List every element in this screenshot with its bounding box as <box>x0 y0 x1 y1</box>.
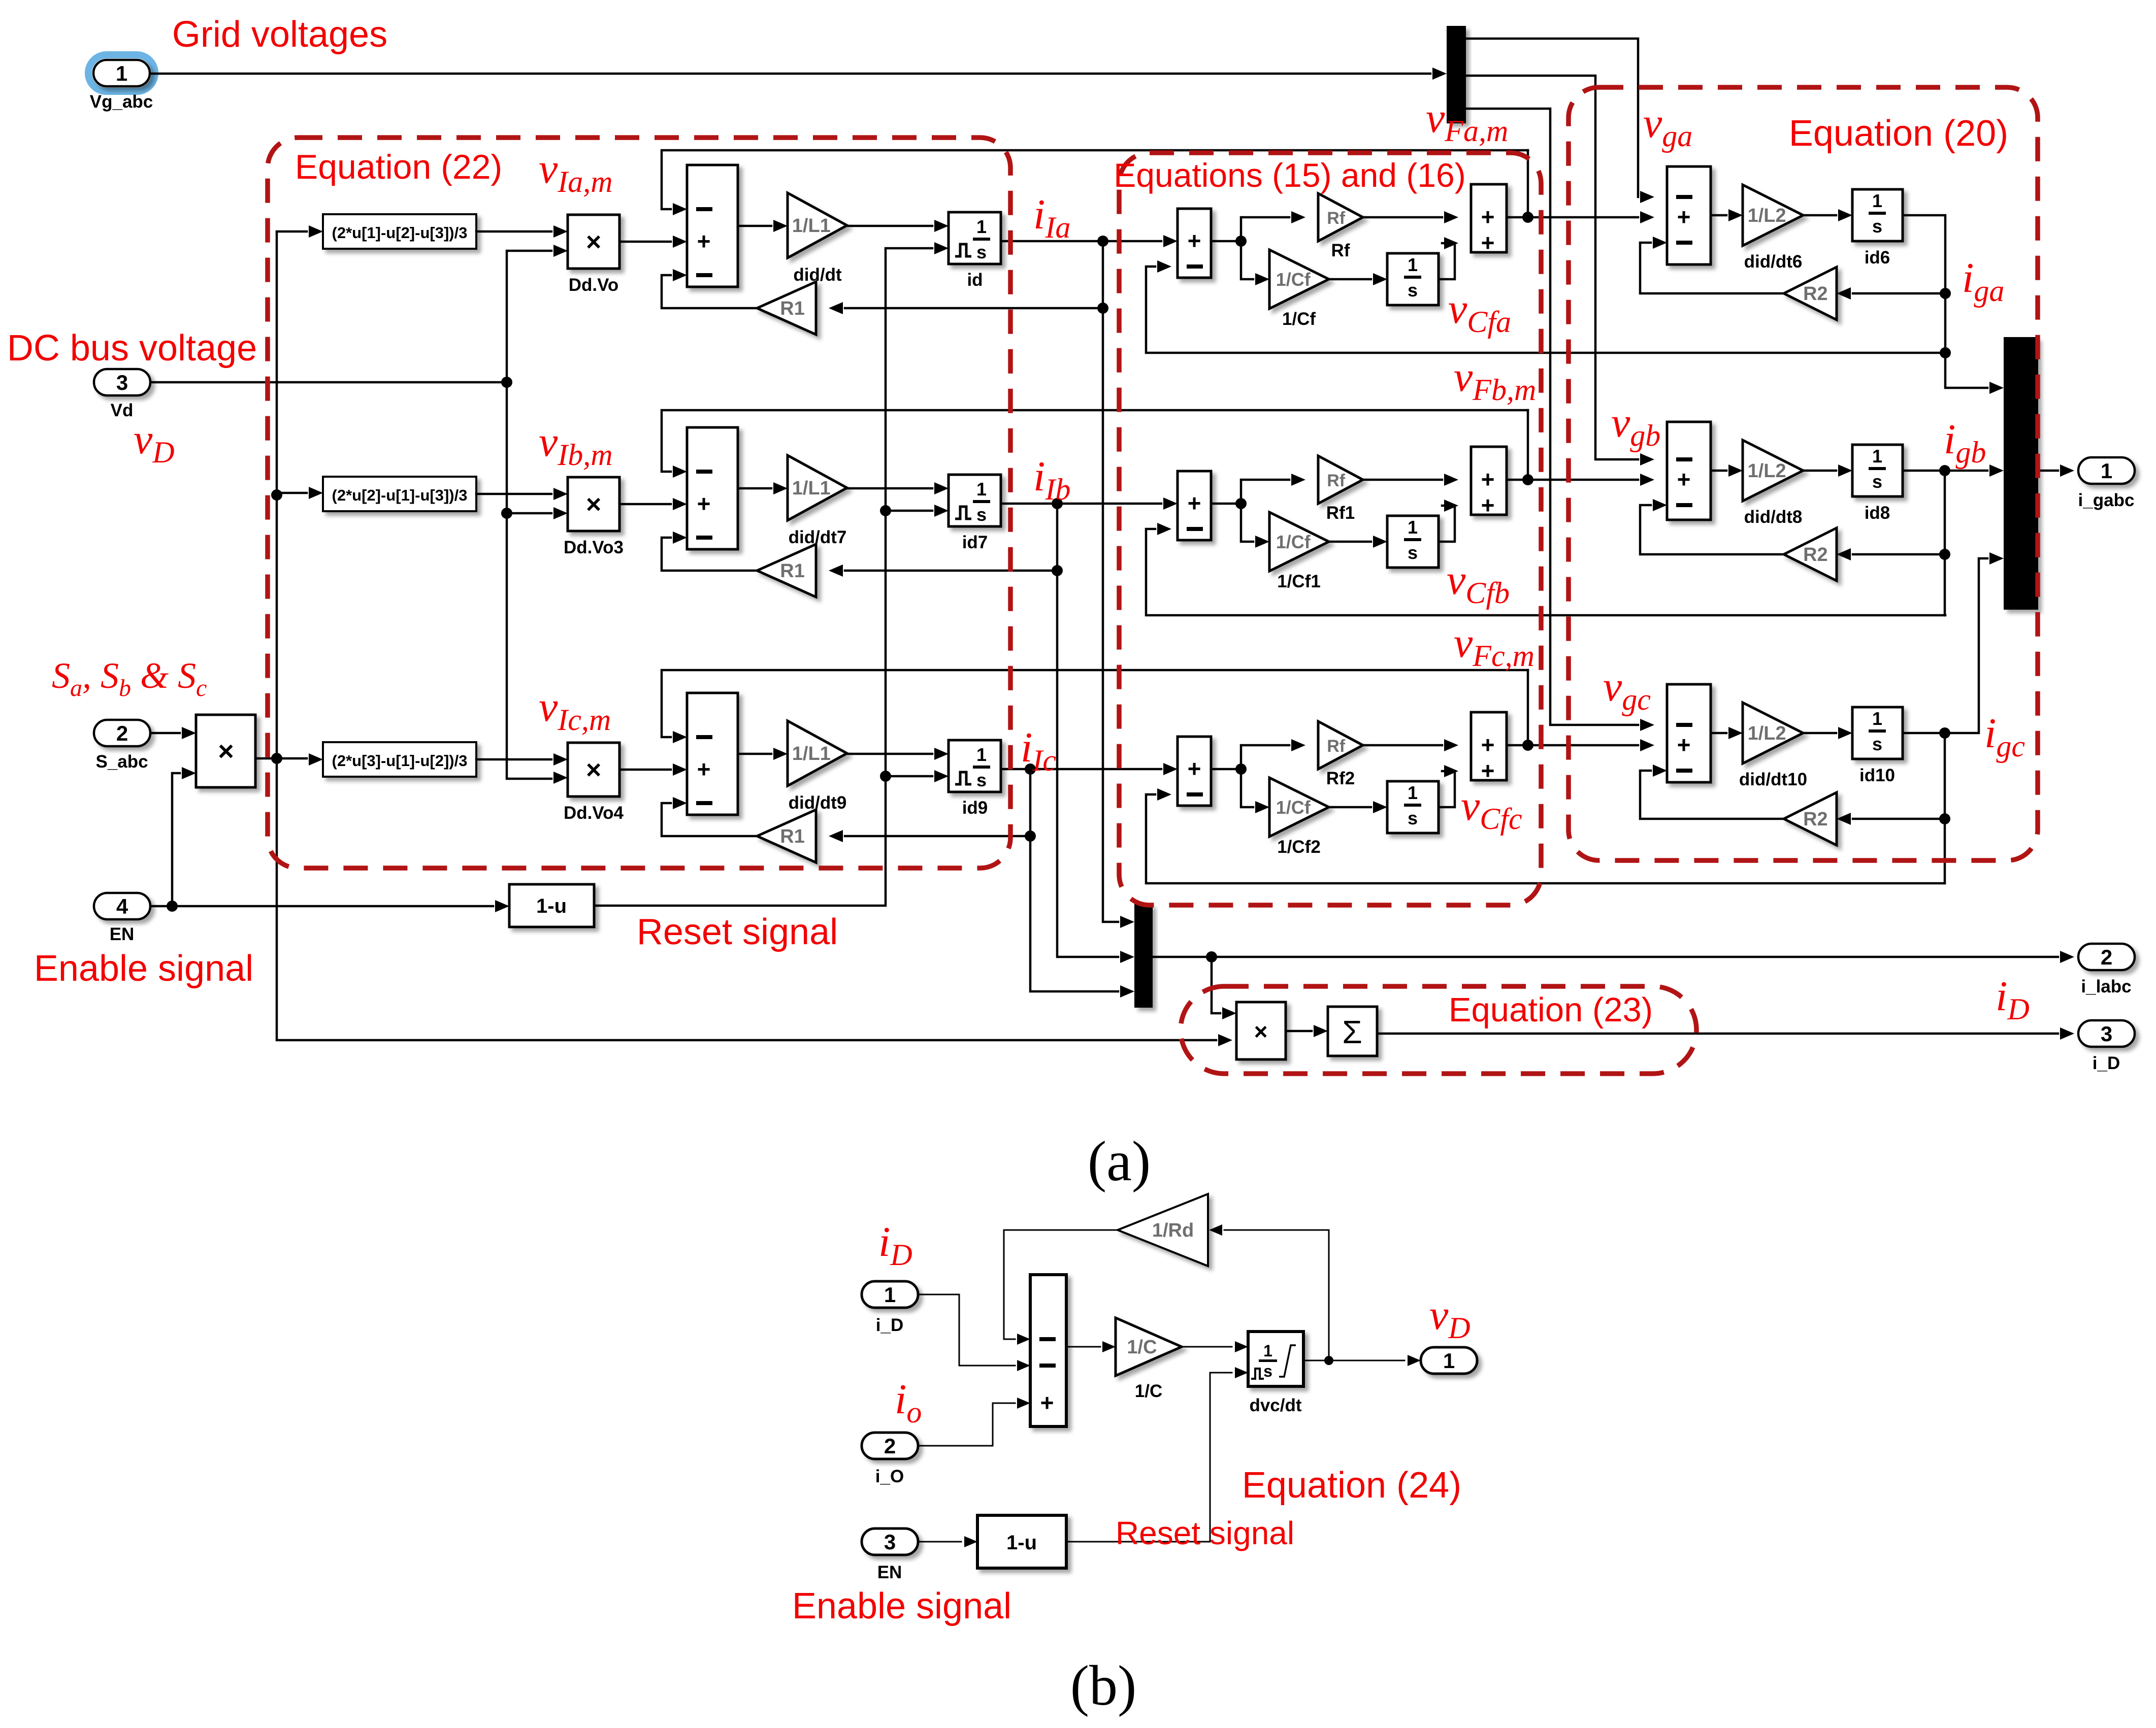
svg-text:EN: EN <box>877 1563 902 1582</box>
svg-text:1: 1 <box>976 479 987 500</box>
input port 4 EN <box>94 893 150 919</box>
svg-text:dvc/dt: dvc/dt <box>1249 1395 1301 1415</box>
demux Vg_abc (black bar) <box>1447 26 1466 123</box>
svg-text:+: + <box>1481 229 1495 256</box>
svg-text:s: s <box>1872 734 1882 754</box>
svg-text:1/L2: 1/L2 <box>1748 723 1786 744</box>
sum-of-elements block (sigma) <box>1328 1007 1377 1056</box>
wire v_Cfa to sum2 <box>1439 243 1455 279</box>
wire R1 output to sum (phase b) <box>662 538 757 571</box>
gain R1 (phase c) <box>757 810 816 862</box>
svg-text:1/L2: 1/L2 <box>1748 205 1786 226</box>
wire 1/Cf to integrator (phase c) <box>1329 806 1371 809</box>
wire i_Ia to sum <box>1001 240 1161 243</box>
wire i_Ic feedback to R1 <box>845 769 1030 836</box>
svg-text:+: + <box>1188 755 1201 782</box>
wire sum to 1/L1 (phase a) <box>738 225 771 227</box>
wire 1/L2 to integrator (phase a) <box>1803 214 1836 217</box>
svg-text:×: × <box>1254 1018 1268 1045</box>
svg-text:1/Cf: 1/Cf <box>1282 309 1316 329</box>
svg-text:i_D: i_D <box>876 1315 903 1335</box>
wire v_Cfc to sum2 <box>1439 771 1455 807</box>
gain 1/Rd (part b) <box>1118 1194 1208 1266</box>
sum block i_Cf (phase b) <box>1178 471 1211 540</box>
fcn block 1-u (part b) <box>977 1515 1066 1568</box>
wire i_Ib feedback to R1 <box>845 504 1057 571</box>
node D bus to Fcn2 <box>271 489 282 501</box>
wire product to sum of elements <box>1286 1030 1312 1033</box>
wire reset to id9 <box>886 775 932 778</box>
wire sum out (phase a) <box>1211 240 1241 243</box>
wire i_gc feedback to sum <box>1146 794 1945 883</box>
sum block v_Fc,m <box>1471 712 1507 780</box>
sum block did/dt (phase b) <box>687 427 738 549</box>
svg-text:s: s <box>976 770 987 790</box>
wire v_D up to 1/Rd <box>1328 1230 1330 1360</box>
wire i_D to output port <box>1377 1033 2058 1035</box>
svg-text:+: + <box>697 228 711 254</box>
wire reset to id7 <box>886 510 932 512</box>
gain Rf (phase b) <box>1318 456 1363 504</box>
svg-text:DC bus voltage: DC bus voltage <box>7 328 257 369</box>
wire to Rf (phase c) <box>1241 745 1289 769</box>
svg-text:Rf: Rf <box>1327 209 1346 228</box>
wire R1 output to sum (phase a) <box>662 275 757 308</box>
svg-text:Rf1: Rf1 <box>1326 503 1355 523</box>
svg-text:+: + <box>1481 732 1495 758</box>
wire i_O to sum (part b) <box>918 1403 1015 1446</box>
svg-text:id6: id6 <box>1865 248 1890 268</box>
wire sum out (phase c) <box>1211 768 1241 771</box>
wire Rf to sum2 (phase a) <box>1363 216 1442 219</box>
wire Rf to sum2 (phase c) <box>1363 744 1442 747</box>
svg-text:did/dt6: did/dt6 <box>1744 252 1803 272</box>
node Vd junction <box>501 377 512 388</box>
wire i_ga from id6 to mux <box>1903 215 1987 388</box>
fcn block (2*u[1]-u[2]-u[3])/3 (phase a) <box>323 214 476 249</box>
svg-text:1: 1 <box>1408 782 1418 803</box>
wire sum to 1/L2 (phase a) <box>1711 214 1726 217</box>
node i_Cfa junction <box>1235 236 1247 247</box>
wire sum out (phase b) <box>1211 503 1241 505</box>
svg-text:R1: R1 <box>780 826 805 847</box>
wire S_abc to product <box>150 732 180 735</box>
wire Dd.Vo3 to sum (phase b) <box>619 503 671 506</box>
node i_Cfc junction <box>1235 763 1247 775</box>
sum block did/dt (phase c) <box>687 693 738 815</box>
svg-text:1: 1 <box>116 61 127 85</box>
svg-text:1/Rd: 1/Rd <box>1152 1220 1194 1241</box>
wire R2 to sum (phase c) <box>1640 771 1784 819</box>
wire v_D to 1/Rd <box>1224 1229 1329 1231</box>
sum block i_Cf (phase a) <box>1178 209 1211 278</box>
svg-text:did/dt8: did/dt8 <box>1744 507 1803 527</box>
svg-text:2: 2 <box>116 721 128 745</box>
integrator id8 <box>1852 445 1903 496</box>
product Dd.Vo4 <box>568 743 619 796</box>
svg-text:s: s <box>976 504 987 525</box>
svg-text:Enable signal: Enable signal <box>792 1586 1011 1626</box>
wire i_Ia feedback to R1 <box>845 241 1103 308</box>
wire i_Ic down to mux i_labc <box>1030 836 1118 991</box>
svg-text:1: 1 <box>1443 1349 1455 1373</box>
output port 1 i_gabc <box>2078 457 2135 484</box>
wire v_D output <box>1303 1360 1404 1361</box>
wire Fcn to product (phase a) <box>476 230 551 233</box>
wire to 1/Cf (phase a) <box>1241 241 1253 279</box>
wire v_Fb,m to Equation 20 sum <box>1507 479 1638 481</box>
wire EN to 1-u <box>150 905 493 908</box>
svg-text:+: + <box>1481 492 1495 518</box>
svg-text:s: s <box>1408 808 1418 828</box>
gain did/dt8 (1/L2, phase b) <box>1743 440 1803 501</box>
svg-text:1: 1 <box>1872 446 1882 467</box>
svg-text:did/dt10: did/dt10 <box>1739 770 1807 789</box>
svg-text:1/L1: 1/L1 <box>792 478 831 499</box>
svg-text:s: s <box>1263 1362 1272 1380</box>
svg-text:1: 1 <box>1408 254 1418 275</box>
svg-text:Grid voltages: Grid voltages <box>172 14 387 55</box>
wire v_Cfb to sum2 <box>1439 506 1455 542</box>
gain R2 (phase a) <box>1784 267 1837 320</box>
svg-text:×: × <box>586 490 601 519</box>
dashed box Equation (20) <box>1569 87 2038 860</box>
svg-text:(2*u[3]-u[1]-u[2])/3: (2*u[3]-u[1]-u[2])/3 <box>332 752 468 770</box>
wire D bus to Fcn2 <box>277 492 307 494</box>
svg-text:Reset signal: Reset signal <box>1116 1515 1294 1551</box>
node v_Fb,m junction <box>1522 474 1533 485</box>
wire R2 to sum (phase b) <box>1640 505 1784 554</box>
svg-text:Rf: Rf <box>1327 471 1346 490</box>
node i_ga feedback junction <box>1940 347 1951 358</box>
svg-text:did/dt7: did/dt7 <box>789 527 847 547</box>
svg-text:1/L1: 1/L1 <box>792 743 831 765</box>
input port 3 Vd <box>94 369 150 395</box>
svg-text:R2: R2 <box>1803 809 1828 830</box>
svg-text:i_O: i_O <box>875 1467 904 1486</box>
svg-text:i_gabc: i_gabc <box>2078 490 2135 510</box>
product Dd.Vo <box>568 215 619 269</box>
gain 1/Cf (phase c) <box>1269 778 1329 837</box>
input port 1 i_D (part b) <box>862 1281 918 1308</box>
node v_Fc,m junction <box>1522 740 1533 751</box>
wire v_Fa,m up <box>1527 150 1529 217</box>
svg-text:+: + <box>1481 204 1495 230</box>
svg-text:1/Cf: 1/Cf <box>1276 797 1311 818</box>
wire vertical D bus up <box>276 232 278 758</box>
output port 1 v_D (part b) <box>1421 1347 1477 1374</box>
wire i_gc to R2 <box>1853 818 1945 820</box>
product block (S_abc x EN) <box>196 715 255 787</box>
wire i_D to sum (part b) <box>918 1294 1015 1366</box>
svg-text:id8: id8 <box>1865 503 1890 523</box>
wire 1/L1 to integrator (phase c) <box>847 753 932 755</box>
wire v_Fa,m feedback to sum <box>662 150 1528 209</box>
wire v_ga from demux <box>1466 39 1638 197</box>
svg-text:×: × <box>218 736 234 767</box>
node reset to id9 <box>880 771 891 782</box>
svg-text:+: + <box>1188 227 1201 254</box>
wire 1/L2 to integrator (phase c) <box>1803 732 1836 735</box>
svg-text:+: + <box>1188 490 1201 516</box>
gain R2 (phase b) <box>1784 528 1837 581</box>
svg-text:Dd.Vo4: Dd.Vo4 <box>564 803 624 823</box>
svg-text:1-u: 1-u <box>536 895 567 917</box>
output port 3 i_D <box>2078 1020 2135 1047</box>
wire Rf to sum2 (phase b) <box>1363 479 1442 481</box>
node Vd bus to Dd.Vo3 <box>501 508 512 519</box>
node i_Ic junction <box>1025 763 1036 775</box>
svg-text:Equation (23): Equation (23) <box>1449 991 1653 1029</box>
wire i_Ia down to mux i_labc <box>1103 308 1118 922</box>
integrator id <box>949 212 1001 264</box>
gain Rf (phase c) <box>1318 721 1363 769</box>
svg-text:id: id <box>967 270 983 290</box>
input port 2 i_O (part b) <box>862 1433 918 1459</box>
sum block i_Cf (phase c) <box>1178 737 1211 806</box>
svg-text:Rf2: Rf2 <box>1326 769 1355 788</box>
svg-text:Enable signal: Enable signal <box>34 948 253 989</box>
wire 1/Rd to sum (part b) <box>1004 1230 1118 1339</box>
gain did/dt9 (1/L1, phase c) <box>788 721 847 786</box>
svg-text:R2: R2 <box>1803 283 1828 305</box>
node reset to id7 <box>880 505 891 516</box>
wire 1/C to integrator <box>1182 1346 1232 1348</box>
wire product output to Fcn3 / bus <box>255 757 307 760</box>
svg-text:4: 4 <box>116 894 128 918</box>
wire v_Fc,m up <box>1527 670 1529 745</box>
wire Vd bus to Dd.Vo3 input <box>507 512 551 515</box>
svg-text:did/dt9: did/dt9 <box>789 793 847 813</box>
wire mux to output port i_gabc <box>2038 470 2058 472</box>
svg-text:1/Cf: 1/Cf <box>1276 269 1311 290</box>
dashed box Equation (23) <box>1181 986 1696 1074</box>
node R2 tap (phase a) <box>1940 288 1951 299</box>
svg-text:×: × <box>586 755 601 785</box>
wire D bus to Fcn1 <box>277 230 307 233</box>
svg-text:+: + <box>697 756 711 782</box>
wire EN to 1-u (part b) <box>918 1541 961 1543</box>
node v_D junction (part b) <box>1324 1356 1333 1365</box>
dashed box Equations (15) and (16) <box>1119 153 1541 905</box>
svg-text:(2*u[1]-u[2]-u[3])/3: (2*u[1]-u[2]-u[3])/3 <box>332 224 468 242</box>
svg-text:Dd.Vo3: Dd.Vo3 <box>564 538 624 557</box>
svg-text:R1: R1 <box>780 298 805 319</box>
sum block di_gb/dt <box>1667 422 1711 520</box>
svg-text:s: s <box>1872 471 1882 492</box>
fcn block (2*u[3]-u[1]-u[2])/3 (phase c) <box>323 742 476 777</box>
node i_Ia junction <box>1097 236 1108 247</box>
wire to 1/Cf (phase c) <box>1241 769 1253 807</box>
wire i_Ib to sum <box>1001 503 1161 505</box>
gain did/dt (1/L1, phase a) <box>788 193 847 258</box>
wire i_ga feedback to sum <box>1146 267 1945 353</box>
svg-text:2: 2 <box>2101 945 2112 969</box>
svg-text:1/Cf: 1/Cf <box>1276 531 1311 552</box>
wire v_Fc,m feedback to sum <box>662 670 1528 737</box>
wire to Rf (phase b) <box>1241 480 1289 504</box>
svg-text:+: + <box>1677 466 1691 492</box>
wire Vg_abc to demux <box>150 73 1430 75</box>
svg-text:+: + <box>1481 757 1495 784</box>
svg-text:i_labc: i_labc <box>2081 977 2131 996</box>
wire reset signal vertical <box>594 248 932 906</box>
wire i_labc to product <box>1212 957 1220 1013</box>
wire v_gc from demux <box>1466 109 1638 725</box>
gain 1/Cf (phase b) <box>1269 512 1329 571</box>
node R1 tap (phase a) <box>1097 303 1108 314</box>
svg-text:2: 2 <box>884 1434 896 1458</box>
gain did/dt6 (1/L2, phase a) <box>1743 185 1803 246</box>
svg-text:1/C: 1/C <box>1127 1337 1157 1358</box>
input port 1 Vg_abc <box>88 55 155 91</box>
node R1 tap (phase b) <box>1052 565 1063 576</box>
mux i_labc (black bar) <box>1134 904 1153 1008</box>
svg-text:id7: id7 <box>962 533 988 552</box>
node R2 tap (phase c) <box>1939 813 1950 824</box>
integrator id9 <box>949 740 1001 792</box>
svg-text:1/C: 1/C <box>1135 1381 1162 1401</box>
wire 1/Cf to integrator (phase a) <box>1329 278 1371 281</box>
wire v_Fa,m to Equation 20 sum <box>1507 216 1638 219</box>
input port 3 EN (part b) <box>862 1528 918 1555</box>
gain did/dt7 (1/L1, phase b) <box>788 455 847 520</box>
wire i_gb from id8 to mux <box>1903 470 1987 472</box>
output port 2 i_labc <box>2078 944 2135 970</box>
sum block did/dt (phase a) <box>687 165 738 287</box>
svg-text:Vd: Vd <box>111 401 134 420</box>
svg-text:×: × <box>586 227 601 257</box>
svg-text:did/dt: did/dt <box>793 265 842 285</box>
wire sum to 1/C <box>1066 1346 1100 1348</box>
fcn block (2*u[2]-u[1]-u[3])/3 (phase b) <box>323 477 476 511</box>
wire i_Ib down to mux i_labc <box>1057 571 1118 957</box>
sum block di_ga/dt <box>1667 167 1711 264</box>
svg-text:(b): (b) <box>1070 1654 1137 1717</box>
svg-text:Equations (15) and (16): Equations (15) and (16) <box>1114 156 1465 194</box>
wire R2 to sum (phase a) <box>1640 243 1784 293</box>
integrator v_Cfa (1/s) <box>1387 253 1439 305</box>
svg-text:1-u: 1-u <box>1006 1532 1037 1554</box>
svg-text:1/Cf1: 1/Cf1 <box>1277 572 1321 591</box>
svg-text:Equation (22): Equation (22) <box>295 148 502 186</box>
svg-text:3: 3 <box>884 1530 896 1554</box>
product block (Equation 23) <box>1236 1002 1286 1059</box>
wire i_gc down <box>1944 733 1946 883</box>
svg-text:Rf: Rf <box>1331 241 1350 260</box>
wire reset signal (part b) <box>1066 1373 1232 1542</box>
node product output junction <box>271 753 282 764</box>
mux i_gabc (black bar) <box>2004 337 2038 610</box>
svg-text:3: 3 <box>116 371 128 394</box>
wire i_labc to output port <box>1153 956 2058 958</box>
sum block v_Fb,m <box>1471 447 1507 515</box>
svg-text:1: 1 <box>1408 517 1418 538</box>
svg-text:s: s <box>976 242 987 262</box>
wire Vd bus up to Dd.Vo <box>507 251 551 382</box>
svg-text:+: + <box>1677 204 1691 230</box>
svg-text:Dd.Vo: Dd.Vo <box>569 275 619 295</box>
wire to Rf (phase a) <box>1241 217 1289 241</box>
wire D*EN down to Equation 23 product <box>277 758 1216 1040</box>
svg-text:id10: id10 <box>1859 766 1895 785</box>
wire 1/Cf to integrator (phase b) <box>1329 541 1371 543</box>
wire Fcn to product (phase b) <box>476 493 551 495</box>
integrator v_Cfc (1/s) <box>1387 781 1439 833</box>
svg-text:s: s <box>1872 216 1882 237</box>
wire i_gc from id10 to mux <box>1903 558 1987 733</box>
gain R1 (phase a) <box>757 282 816 335</box>
svg-text:Equation (20): Equation (20) <box>1789 113 2008 154</box>
wire Vd bus down to Dd.Vo4 <box>507 382 551 779</box>
wire sum to 1/L2 (phase b) <box>1711 470 1726 472</box>
dashed box Equation (22) <box>268 138 1010 868</box>
wire v_Fb,m up <box>1527 410 1529 480</box>
wire v_Fb,m feedback to sum <box>662 410 1528 472</box>
gain did/dt10 (1/L2, phase c) <box>1743 703 1803 763</box>
svg-text:1: 1 <box>976 216 987 237</box>
svg-text:S_abc: S_abc <box>95 752 148 772</box>
svg-text:1: 1 <box>976 744 987 765</box>
svg-text:Equation (24): Equation (24) <box>1242 1465 1461 1506</box>
wire Dd.Vo to sum (phase a) <box>619 241 671 243</box>
wire 1/L1 to integrator (phase a) <box>847 225 932 227</box>
integrator v_Cfb (1/s) <box>1387 516 1439 568</box>
input port 2 S_abc <box>94 720 150 746</box>
svg-text:Reset signal: Reset signal <box>637 912 838 952</box>
svg-text:1: 1 <box>1872 190 1882 211</box>
gain Rf (phase a) <box>1318 193 1363 241</box>
svg-text:1/Cf2: 1/Cf2 <box>1277 837 1321 857</box>
svg-text:(a): (a) <box>1088 1130 1151 1193</box>
svg-text:i_D: i_D <box>2093 1053 2120 1073</box>
wire i_gb feedback to sum <box>1146 529 1945 615</box>
gain R2 (phase c) <box>1784 792 1837 845</box>
node i_gb junction <box>1939 465 1950 476</box>
wire v_Fc,m to Equation 20 sum <box>1507 744 1638 747</box>
node R2 tap (phase b) <box>1939 549 1950 560</box>
svg-text:R1: R1 <box>780 560 805 582</box>
integrator dvc/dt (part b) <box>1248 1332 1303 1386</box>
wire i_gb to R2 <box>1853 553 1945 556</box>
svg-text:s: s <box>1408 542 1418 563</box>
node R1 tap (phase c) <box>1025 830 1036 842</box>
wire R1 output to sum (phase c) <box>662 803 757 836</box>
svg-text:3: 3 <box>2101 1022 2112 1046</box>
fcn block 1-u (reset) <box>509 884 594 927</box>
svg-text:Σ: Σ <box>1342 1014 1362 1050</box>
svg-text:+: + <box>1040 1389 1054 1416</box>
svg-text:EN: EN <box>110 924 135 944</box>
node i_Ib junction <box>1052 498 1063 509</box>
svg-text:R2: R2 <box>1803 544 1828 566</box>
node EN branch <box>167 901 178 912</box>
svg-text:id9: id9 <box>962 798 988 818</box>
integrator id6 <box>1852 189 1903 241</box>
gain R1 (phase b) <box>757 544 816 597</box>
svg-text:1: 1 <box>2101 459 2112 483</box>
wire sum to 1/L2 (phase c) <box>1711 732 1726 735</box>
wire i_gb down <box>1944 471 1946 615</box>
node i_Cfb junction <box>1235 498 1247 509</box>
wire Fcn to product (phase c) <box>476 758 551 761</box>
wire sum to 1/L1 (phase c) <box>738 753 771 755</box>
svg-text:1/L1: 1/L1 <box>792 215 831 237</box>
svg-text:Vg_abc: Vg_abc <box>90 92 153 112</box>
node i_labc branch to Equation 23 <box>1206 951 1217 962</box>
integrator id10 <box>1852 707 1903 759</box>
wire 1/L2 to integrator (phase b) <box>1803 470 1836 472</box>
